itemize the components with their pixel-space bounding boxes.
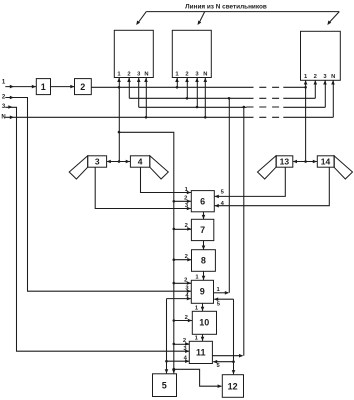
arrow bracket to luminaire B — [199, 12, 204, 23]
luminaire box A — [114, 30, 153, 77]
svg-text:12: 12 — [228, 382, 238, 392]
wire block13 to block6 pin5 — [215, 167, 286, 196]
svg-text:2: 2 — [184, 196, 187, 202]
feeder wire to pin2 column and block 5 — [119, 132, 174, 373]
wire 6 to 7 — [203, 212, 205, 220]
wire bus3 down (VC) — [243, 107, 245, 355]
block 12 — [222, 375, 243, 398]
arrow bracket to luminaire A — [138, 12, 146, 23]
block 11 — [189, 341, 212, 363]
emitter block 4 — [130, 156, 149, 167]
svg-text:2: 2 — [185, 72, 188, 78]
bus phase 1 (from block 2) — [91, 86, 246, 88]
wire feeder to block6 pin2 — [174, 200, 192, 202]
svg-text:2: 2 — [185, 223, 188, 229]
svg-text:7: 7 — [200, 225, 205, 235]
wire block14 to block6 pin4 — [215, 167, 330, 206]
input 3 wire to block 11 pin 3 — [5, 107, 189, 351]
svg-text:N: N — [203, 72, 207, 78]
svg-text:2: 2 — [185, 254, 188, 260]
wire 8 to 9 pin1 — [203, 271, 205, 280]
wire feeder to block7 pin2 — [174, 228, 192, 230]
lumC pin3 stub — [324, 80, 326, 107]
wire 10 to 11 pin1 — [202, 334, 204, 341]
vertical mid wire to block 12 — [233, 299, 235, 374]
block 2 — [75, 79, 92, 95]
lumB pin1 stub — [176, 78, 178, 88]
wire block1 to block2 — [51, 86, 75, 88]
lumA pinN stub — [145, 78, 147, 118]
svg-text:1: 1 — [41, 82, 46, 92]
junction lumA pinN / busN — [145, 116, 148, 119]
wire feeder to block9 pin2 — [174, 282, 192, 284]
svg-text:N: N — [1, 115, 5, 121]
interconnect 3-4 — [107, 161, 131, 163]
svg-text:N: N — [331, 74, 335, 80]
input 1 wire — [5, 86, 36, 88]
svg-text:3: 3 — [95, 157, 100, 167]
lumA pin1 stub — [118, 78, 120, 88]
junction 3-4 / bus1 drop — [118, 160, 121, 163]
svg-text:Линия из N светильников: Линия из N светильников — [185, 4, 267, 11]
junction feeder branch — [118, 131, 121, 134]
svg-text:4: 4 — [138, 157, 143, 167]
luminaire box B — [172, 30, 211, 77]
block9 out1 wire — [214, 292, 229, 294]
block9 pin4 wire (from vertical A) — [167, 298, 192, 300]
photodetector block 13 — [276, 156, 293, 167]
wire block4 to block6 pin1 — [141, 167, 192, 192]
interconnect 13-14 — [293, 161, 318, 163]
lumA pin3 stub — [138, 78, 140, 108]
block11 out wire — [212, 355, 242, 357]
lumC pinN stub — [332, 80, 334, 117]
wire bus1 down to sensors 13/14 — [305, 87, 307, 161]
wire feeder branch to block 12 — [174, 369, 222, 386]
svg-text:9: 9 — [200, 287, 205, 297]
svg-text:2: 2 — [80, 82, 85, 92]
block 10 — [192, 311, 216, 334]
block 9 — [191, 280, 213, 303]
block9 pin5 wire (from vertical mid) — [214, 298, 233, 300]
block 6 — [191, 191, 214, 212]
svg-text:2: 2 — [183, 338, 186, 344]
block11 pin5 wire — [213, 361, 233, 363]
photodetector block 3 — [88, 156, 107, 167]
wire feeder to block8 pin2 — [174, 259, 192, 261]
wire block3 to block6 pin3 — [95, 167, 191, 208]
svg-text:2: 2 — [127, 72, 130, 78]
svg-text:N: N — [144, 72, 148, 78]
svg-text:14: 14 — [321, 157, 331, 167]
block 8 — [192, 250, 216, 272]
block 5 — [153, 374, 177, 397]
lumC pin2 stub — [314, 80, 316, 98]
svg-text:2: 2 — [184, 277, 187, 283]
bus neutral N — [5, 116, 246, 118]
svg-text:10: 10 — [199, 318, 209, 328]
svg-text:11: 11 — [196, 348, 206, 358]
bus phase 3 — [139, 106, 247, 108]
input 2 wire to block 9 pin 3 — [5, 98, 191, 292]
wire feeder to block11 pin2 — [174, 343, 190, 345]
emitter block 14 — [317, 156, 334, 167]
lumA pin2 stub — [128, 78, 130, 99]
block11 pin4 wire — [167, 360, 190, 362]
bus phase 2 — [129, 97, 246, 99]
svg-text:8: 8 — [201, 256, 206, 266]
wire bus2 down (VB) — [228, 98, 230, 292]
block 1 — [36, 79, 50, 95]
svg-text:2: 2 — [314, 74, 317, 80]
svg-text:6: 6 — [200, 196, 205, 206]
junction lumA pin1 / bus1 — [118, 86, 121, 89]
svg-text:5: 5 — [162, 381, 167, 391]
lumB pin2 stub — [186, 78, 188, 99]
junction 13-14 / bus1 drop — [304, 160, 307, 163]
arrow bracket to luminaire C — [329, 12, 339, 23]
lumB pinN stub — [204, 78, 206, 118]
svg-text:2: 2 — [185, 315, 188, 321]
wire bus1 down to sensors 3/4 — [118, 87, 120, 161]
vertical A wire to block 5 — [166, 299, 168, 374]
lumB pin3 stub — [196, 78, 198, 108]
luminaire box C — [301, 31, 341, 80]
wire 9 to 10 pin1 — [202, 303, 204, 311]
block 7 — [191, 219, 213, 240]
wire 7 to 8 — [203, 241, 205, 250]
svg-text:13: 13 — [280, 157, 290, 167]
bracket line over luminaires — [146, 11, 339, 13]
lumC pin1 stub — [305, 80, 307, 87]
wire feeder to block10 pin2 — [174, 320, 193, 322]
